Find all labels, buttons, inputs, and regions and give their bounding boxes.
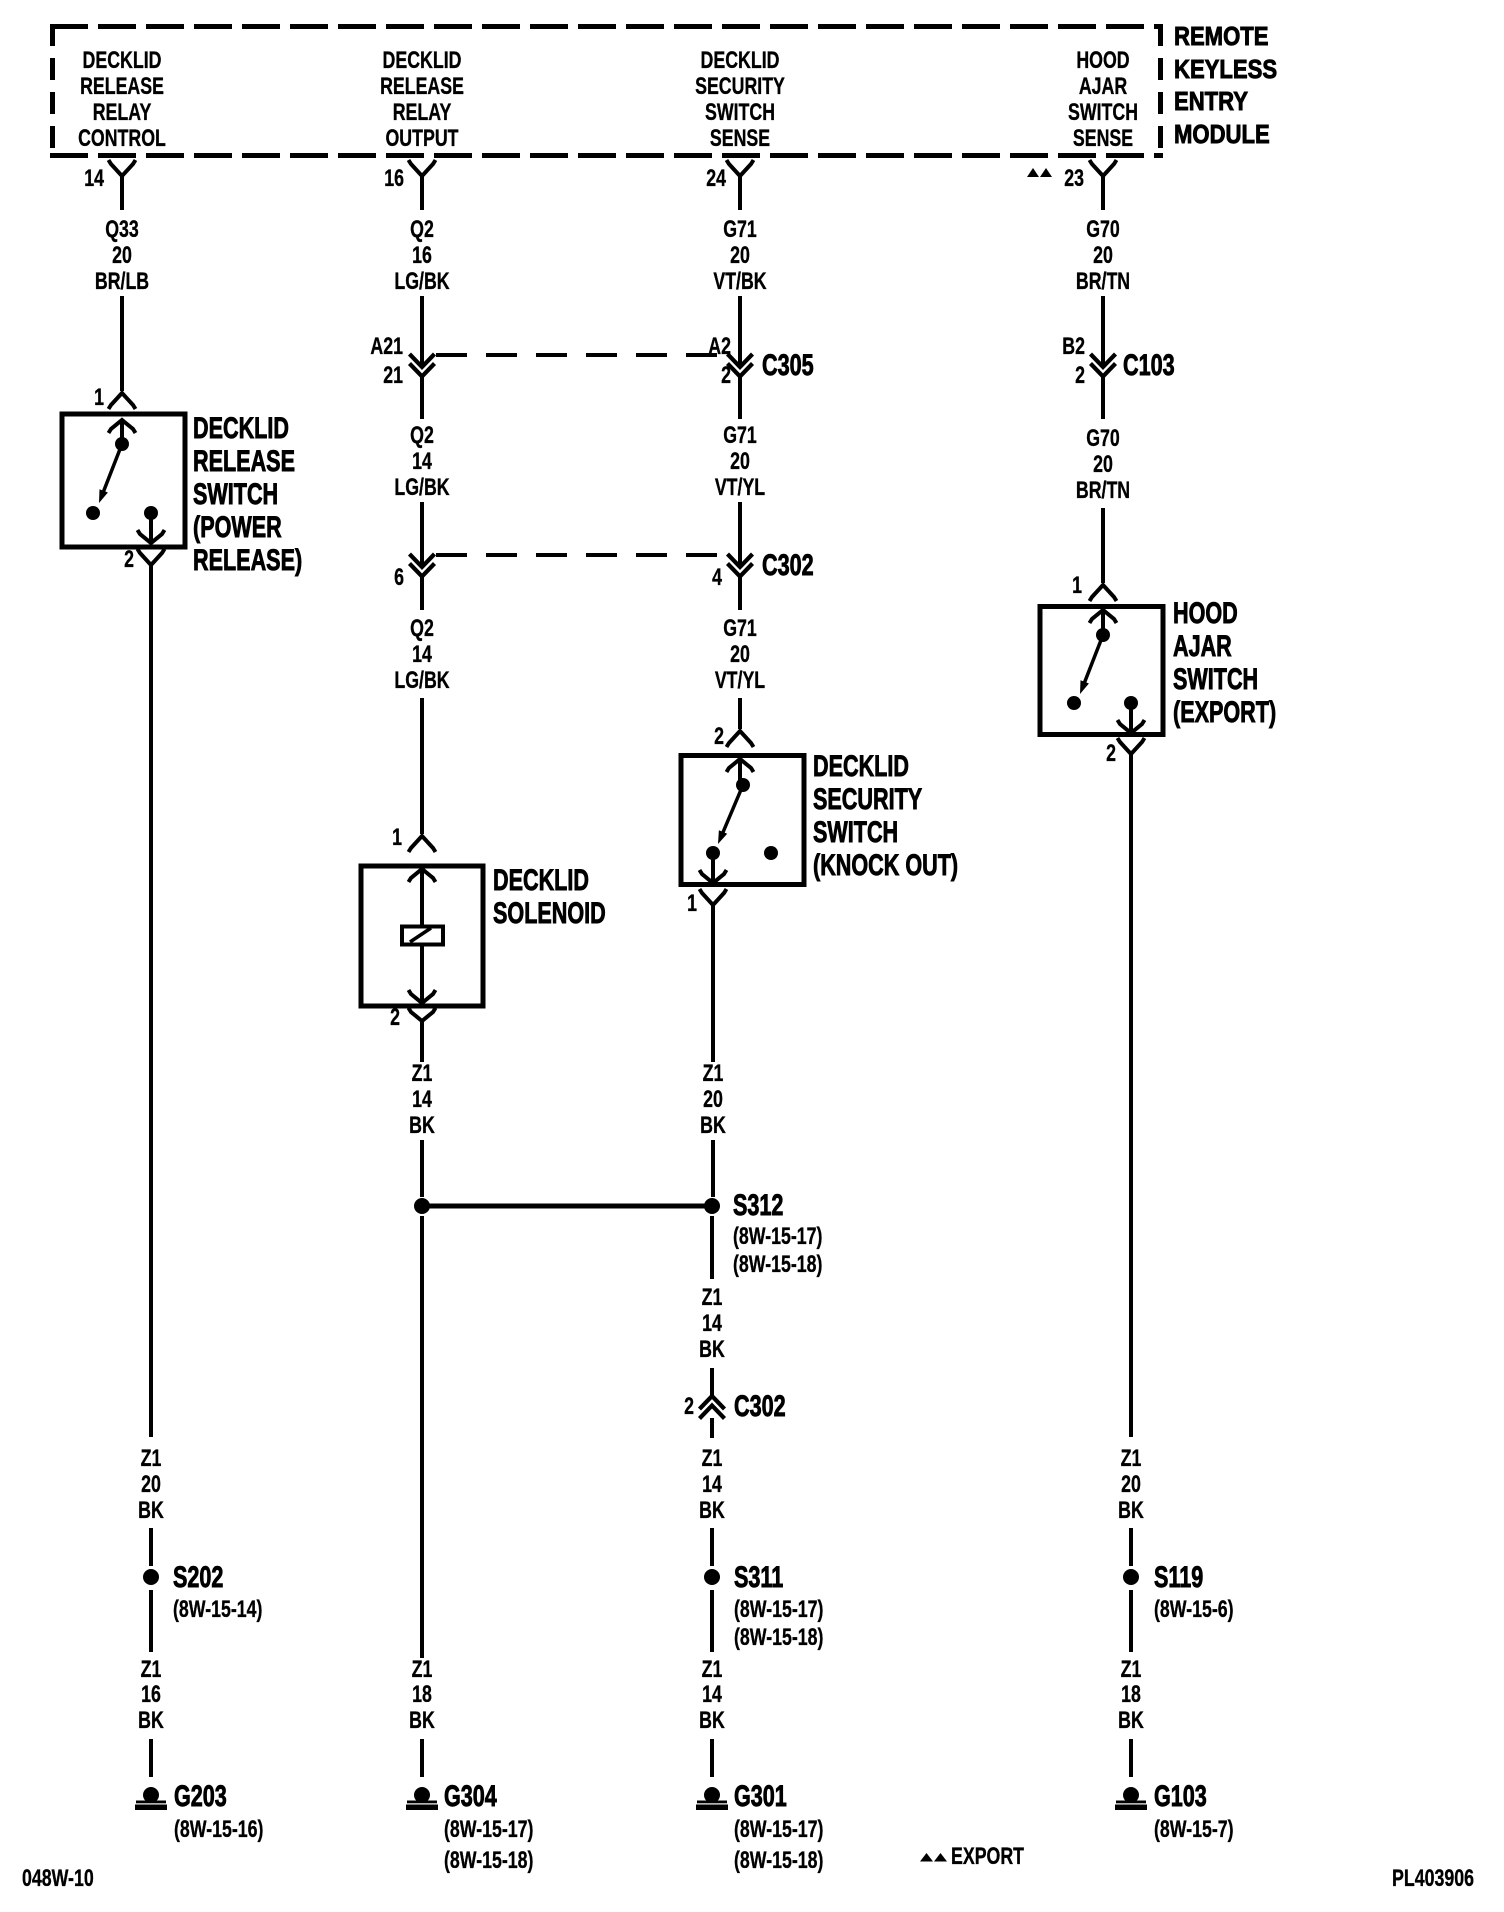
svg-text:DECKLID: DECKLID [383,48,462,74]
svg-text:Z1: Z1 [412,1657,433,1683]
wire col4 long run [1129,754,1133,1437]
switch internal arrow bottom [138,530,165,543]
svg-text:Z1: Z1 [141,1446,162,1472]
svg-text:BR/TN: BR/TN [1076,269,1130,295]
svg-text:BK: BK [138,1708,164,1734]
solenoid coil symbol [402,927,443,945]
hood switch left contact [1067,696,1081,710]
svg-text:G301: G301 [734,1778,787,1812]
connector C305 col3 half [728,354,753,377]
wire hood internal [1101,612,1105,631]
export marker triangles at pin 23 [1027,168,1052,177]
wire label Q2 14 LG/BK upper [394,423,450,501]
svg-text:6: 6 [394,565,404,591]
svg-text:(8W-15-17): (8W-15-17) [733,1224,822,1250]
wire label G70 20 BR/TN upper [1076,217,1130,295]
hood switch right contact [1124,696,1138,710]
wire hood to pin2 [1129,703,1133,731]
pin 1 connector arrow solenoid [409,836,436,852]
pin 2 connector arrow security [727,731,754,747]
svg-text:ENTRY: ENTRY [1174,87,1248,116]
wire junction horizontal [427,1204,707,1209]
svg-text:(8W-15-6): (8W-15-6) [1154,1597,1234,1623]
wire col2 to solenoid [420,698,424,834]
svg-text:PL403906: PL403906 [1392,1866,1474,1892]
solenoid internal arrow bottom [409,990,436,1003]
wire label Q2 16 LG/BK [394,217,450,295]
svg-text:Q33: Q33 [105,217,139,243]
svg-text:(KNOCK OUT): (KNOCK OUT) [813,847,958,881]
decklid release switch S box [62,414,185,547]
svg-text:Z1: Z1 [1121,1446,1142,1472]
svg-text:RELEASE: RELEASE [380,74,464,100]
wire col3 below C305 [738,377,742,419]
solenoid internal arrow top [409,869,436,882]
svg-text:VT/YL: VT/YL [715,668,765,694]
svg-text:DECKLID: DECKLID [193,410,289,444]
splice S119 [1123,1569,1139,1585]
hood internal arrow top [1090,610,1117,623]
wire col4 below S119 [1129,1590,1133,1652]
svg-text:LG/BK: LG/BK [394,269,450,295]
svg-text:SWITCH: SWITCH [813,814,898,848]
wire col3 to C305 [738,296,742,366]
pin 2 connector hood [1118,738,1145,754]
svg-text:BK: BK [138,1498,164,1524]
wire col3 to C302 bottom [710,1368,714,1396]
wire label G70 20 BR/TN lower [1076,426,1130,504]
security switch lever [718,785,743,844]
hood switch pivot contact [1096,628,1110,642]
wire col3 below S311 [710,1590,714,1652]
hood ajar switch box [1040,607,1163,735]
svg-text:14: 14 [412,1087,432,1113]
wire pin23 stub [1101,176,1105,210]
svg-text:(EXPORT): (EXPORT) [1173,694,1276,728]
svg-text:G71: G71 [723,616,757,642]
switch pivot contact [115,437,129,451]
wire col2 below solenoid [420,1020,424,1062]
remote keyless entry module box [50,24,1163,158]
svg-text:C103: C103 [1123,347,1175,381]
wire solenoid internal top [420,870,424,927]
svg-text:Z1: Z1 [141,1657,162,1683]
svg-text:S312: S312 [733,1187,783,1221]
svg-text:B2: B2 [1062,334,1085,360]
wire col2 to ground [420,1739,424,1777]
svg-text:SWITCH: SWITCH [1068,100,1138,126]
pin 1 connector arrow hood [1090,585,1117,601]
svg-text:Z1: Z1 [702,1657,723,1683]
svg-text:BR/LB: BR/LB [95,269,149,295]
svg-text:14: 14 [84,166,104,192]
svg-text:A2: A2 [708,334,731,360]
svg-text:(8W-15-17): (8W-15-17) [734,1597,823,1623]
svg-text:(8W-15-18): (8W-15-18) [734,1848,823,1874]
wire col1 to ground [149,1739,153,1777]
wire col2 below C302 [420,577,424,610]
svg-text:G71: G71 [723,217,757,243]
svg-text:G71: G71 [723,423,757,449]
svg-text:1: 1 [392,825,402,851]
svg-text:G70: G70 [1086,426,1120,452]
svg-text:SECURITY: SECURITY [695,74,785,100]
svg-text:C305: C305 [762,347,814,381]
svg-text:RELEASE): RELEASE) [193,542,302,576]
svg-text:14: 14 [702,1682,722,1708]
svg-text:2: 2 [390,1005,400,1031]
junction dot col2 [414,1198,430,1214]
wire label Z1 20 BK col3 [700,1061,726,1139]
wire label Q33 20 BR/LB [95,217,149,295]
svg-text:SOLENOID: SOLENOID [493,895,606,929]
wire security to pin1 [711,853,715,881]
splice S311 [704,1569,720,1585]
wire label G71 20 VT/YL upper [715,423,765,501]
ground G304 [406,1787,438,1810]
pin 2 connector [138,549,165,565]
svg-text:1: 1 [94,385,104,411]
hood internal arrow bottom [1118,720,1145,733]
connector C302 col2 half [410,554,435,577]
svg-text:BK: BK [699,1337,725,1363]
svg-text:G304: G304 [444,1778,497,1812]
wire col3 below security switch [711,905,715,1062]
svg-text:20: 20 [1093,452,1113,478]
svg-text:14: 14 [412,642,432,668]
wire col3 to ground [710,1739,714,1777]
svg-text:2: 2 [124,547,134,573]
svg-text:14: 14 [702,1472,722,1498]
connector C305 col2 half [410,354,435,377]
svg-text:SWITCH: SWITCH [1173,661,1258,695]
wire label G71 20 VT/YL lower [715,616,765,694]
label DECKLID RELEASE SWITCH (POWER RELEASE) [193,410,302,576]
wire label Q2 14 LG/BK lower [394,616,450,694]
svg-text:SWITCH: SWITCH [705,100,775,126]
svg-text:21: 21 [383,363,403,389]
svg-text:HOOD: HOOD [1173,595,1238,629]
ground G203 [135,1787,167,1810]
export legend [920,1844,1024,1870]
wire solenoid internal bottom [420,944,424,1002]
wire switch to pin2 [149,513,153,541]
svg-text:AJAR: AJAR [1079,74,1127,100]
pin 2 connector solenoid [409,1008,436,1021]
wire col2 to junction [420,1140,424,1197]
wire col4 to hood switch [1101,508,1105,583]
svg-text:G203: G203 [174,1778,227,1812]
wire label Z1 18 BK col2 [409,1657,435,1734]
svg-text:23: 23 [1064,166,1084,192]
pin 16 connector [409,160,436,176]
svg-text:20: 20 [703,1087,723,1113]
switch internal arrow top [109,420,136,433]
splice S312 [704,1198,720,1214]
svg-text:Z1: Z1 [703,1061,724,1087]
label DECKLID SOLENOID [493,862,606,929]
svg-text:1: 1 [687,891,697,917]
svg-text:HOOD: HOOD [1076,48,1129,74]
wire pin14 stub [120,176,124,210]
svg-text:VT/YL: VT/YL [715,475,765,501]
svg-text:BK: BK [1118,1708,1144,1734]
ground G301 [696,1787,728,1810]
svg-text:CONTROL: CONTROL [78,126,166,152]
wire pin24 stub [738,176,742,210]
svg-text:(8W-15-14): (8W-15-14) [173,1597,262,1623]
wire security internal [738,761,742,781]
wire col3 to C302 [738,502,742,566]
wire label Z1 14 BK col3 mid [699,1285,725,1363]
security switch pivot contact [736,778,750,792]
wire label Z1 16 BK col1 [138,1657,164,1734]
svg-text:(8W-15-17): (8W-15-17) [734,1817,823,1843]
svg-text:16: 16 [141,1682,161,1708]
node DECKLID RELEASE RELAY OUTPUT pin label [380,48,464,152]
svg-text:Q2: Q2 [410,217,434,243]
svg-text:S202: S202 [173,1559,223,1593]
wire label Z1 20 BK col1 [138,1446,164,1524]
wire col4 to C103 [1101,296,1105,366]
svg-text:14: 14 [412,449,432,475]
svg-text:20: 20 [730,642,750,668]
svg-text:18: 18 [1121,1682,1141,1708]
svg-text:DECKLID: DECKLID [493,862,589,896]
svg-text:Z1: Z1 [702,1285,723,1311]
svg-text:2: 2 [1106,741,1116,767]
svg-text:20: 20 [730,449,750,475]
svg-text:C302: C302 [762,547,814,581]
svg-text:SWITCH: SWITCH [193,476,278,510]
decklid security switch box [681,756,804,885]
svg-text:(8W-15-18): (8W-15-18) [444,1848,533,1874]
svg-text:2: 2 [721,363,731,389]
svg-text:A21: A21 [370,334,403,360]
svg-text:20: 20 [1121,1472,1141,1498]
svg-text:2: 2 [1075,363,1085,389]
security internal arrow top [727,759,754,772]
decklid solenoid box [361,866,483,1006]
svg-text:BK: BK [699,1708,725,1734]
security internal arrow bottom [700,870,727,883]
svg-text:BK: BK [1118,1498,1144,1524]
wire label Z1 20 BK col4 [1118,1446,1144,1524]
svg-text:Q2: Q2 [410,616,434,642]
node DECKLID SECURITY SWITCH SENSE pin label [695,48,785,152]
svg-text:20: 20 [112,243,132,269]
svg-text:REMOTE: REMOTE [1174,22,1268,51]
wire col3 to S311 [710,1528,714,1566]
svg-text:16: 16 [384,166,404,192]
ground G103 [1115,1787,1147,1810]
dashed connector line C305 [436,353,720,357]
svg-text:(8W-15-18): (8W-15-18) [734,1625,823,1651]
wire col2 to C302 [420,502,424,566]
svg-text:BK: BK [409,1708,435,1734]
wire col3 to S312 [711,1140,715,1197]
svg-text:20: 20 [730,243,750,269]
svg-text:1: 1 [1072,573,1082,599]
wire col3 below C302 [738,577,742,610]
wire switch internal [120,421,124,440]
wire col4 to ground [1129,1739,1133,1777]
svg-text:S311: S311 [734,1559,783,1593]
svg-text:DECKLID: DECKLID [83,48,162,74]
svg-text:24: 24 [706,166,726,192]
svg-text:Z1: Z1 [702,1446,723,1472]
svg-text:Z1: Z1 [1121,1657,1142,1683]
pin 1 connector arrow [109,393,136,409]
wire col3 below C302 bottom [710,1418,714,1438]
module title REMOTE KEYLESS ENTRY MODULE [1174,22,1277,149]
svg-text:C302: C302 [734,1388,786,1422]
splice S202 [143,1569,159,1585]
svg-text:BK: BK [700,1113,726,1139]
label DECKLID SECURITY SWITCH (KNOCK OUT) [813,748,958,881]
svg-text:048W-10: 048W-10 [22,1866,94,1892]
svg-text:(8W-15-7): (8W-15-7) [1154,1817,1234,1843]
connector C302 bottom [700,1396,725,1419]
svg-text:VT/BK: VT/BK [713,269,767,295]
svg-text:S119: S119 [1154,1559,1203,1593]
svg-text:2: 2 [714,724,724,750]
wire col4 below C103 [1101,377,1105,419]
wire col1 to splice [149,1528,153,1566]
svg-text:2: 2 [684,1394,694,1420]
wire col1 below splice [149,1590,153,1652]
label HOOD AJAR SWITCH (EXPORT) [1173,595,1276,728]
svg-text:RELEASE: RELEASE [193,443,295,477]
node HOOD AJAR SWITCH SENSE pin label [1068,48,1138,152]
wire label G71 20 VT/BK [713,217,767,295]
svg-text:RELEASE: RELEASE [80,74,164,100]
wire col2 below C305 [420,377,424,419]
wire col3 below S312 [710,1216,714,1279]
hood switch lever [1080,635,1103,694]
svg-text:OUTPUT: OUTPUT [385,126,458,152]
connector C302 col3 half [728,554,753,577]
svg-text:SENSE: SENSE [1073,126,1133,152]
svg-text:LG/BK: LG/BK [394,668,450,694]
svg-text:KEYLESS: KEYLESS [1174,55,1277,84]
svg-text:BK: BK [699,1498,725,1524]
switch left contact [86,506,100,520]
svg-text:16: 16 [412,243,432,269]
wire pin16 stub [420,176,424,210]
wire col2 long run [420,1216,424,1658]
wire col4 to S119 [1129,1528,1133,1566]
svg-text:RELAY: RELAY [393,100,452,126]
security switch right contact [764,846,778,860]
svg-text:BR/TN: BR/TN [1076,478,1130,504]
wire label Z1 14 BK col3 lowerA [699,1446,725,1524]
pin 14 connector [109,160,136,176]
svg-text:(POWER: (POWER [193,509,282,543]
svg-text:(8W-15-16): (8W-15-16) [174,1817,263,1843]
pin 24 connector [727,160,754,176]
svg-text:18: 18 [412,1682,432,1708]
svg-text:DECKLID: DECKLID [813,748,909,782]
svg-text:BK: BK [409,1113,435,1139]
svg-text:RELAY: RELAY [93,100,152,126]
wire col1 long run [149,565,153,1437]
wire col3 to security switch [738,698,742,729]
svg-text:DECKLID: DECKLID [701,48,780,74]
switch right contact [144,506,158,520]
pin 1 connector security [700,889,727,905]
wire label Z1 18 BK col4 [1118,1657,1144,1734]
svg-text:Q2: Q2 [410,423,434,449]
svg-text:MODULE: MODULE [1174,120,1270,149]
svg-text:14: 14 [702,1311,722,1337]
wire col2 to C305 [420,296,424,366]
svg-text:LG/BK: LG/BK [394,475,450,501]
svg-text:(8W-15-17): (8W-15-17) [444,1817,533,1843]
svg-text:SECURITY: SECURITY [813,781,922,815]
wire label Z1 14 BK col2 [409,1061,435,1139]
svg-text:4: 4 [712,565,722,591]
pin 23 connector [1090,160,1117,176]
svg-text:G103: G103 [1154,1778,1207,1812]
dashed connector line C302 [436,553,720,557]
node DECKLID RELEASE RELAY CONTROL pin label [78,48,166,152]
wire label Z1 14 BK col3 lowerB [699,1657,725,1734]
svg-text:20: 20 [141,1472,161,1498]
connector C103 [1091,354,1116,377]
svg-text:AJAR: AJAR [1173,628,1232,662]
svg-text:20: 20 [1093,243,1113,269]
switch lever [99,444,122,503]
security switch left contact [706,846,720,860]
svg-text:G70: G70 [1086,217,1120,243]
svg-text:EXPORT: EXPORT [951,1844,1024,1870]
svg-text:Z1: Z1 [412,1061,433,1087]
svg-text:SENSE: SENSE [710,126,770,152]
wire col1 to switch [120,296,124,391]
svg-text:(8W-15-18): (8W-15-18) [733,1252,822,1278]
